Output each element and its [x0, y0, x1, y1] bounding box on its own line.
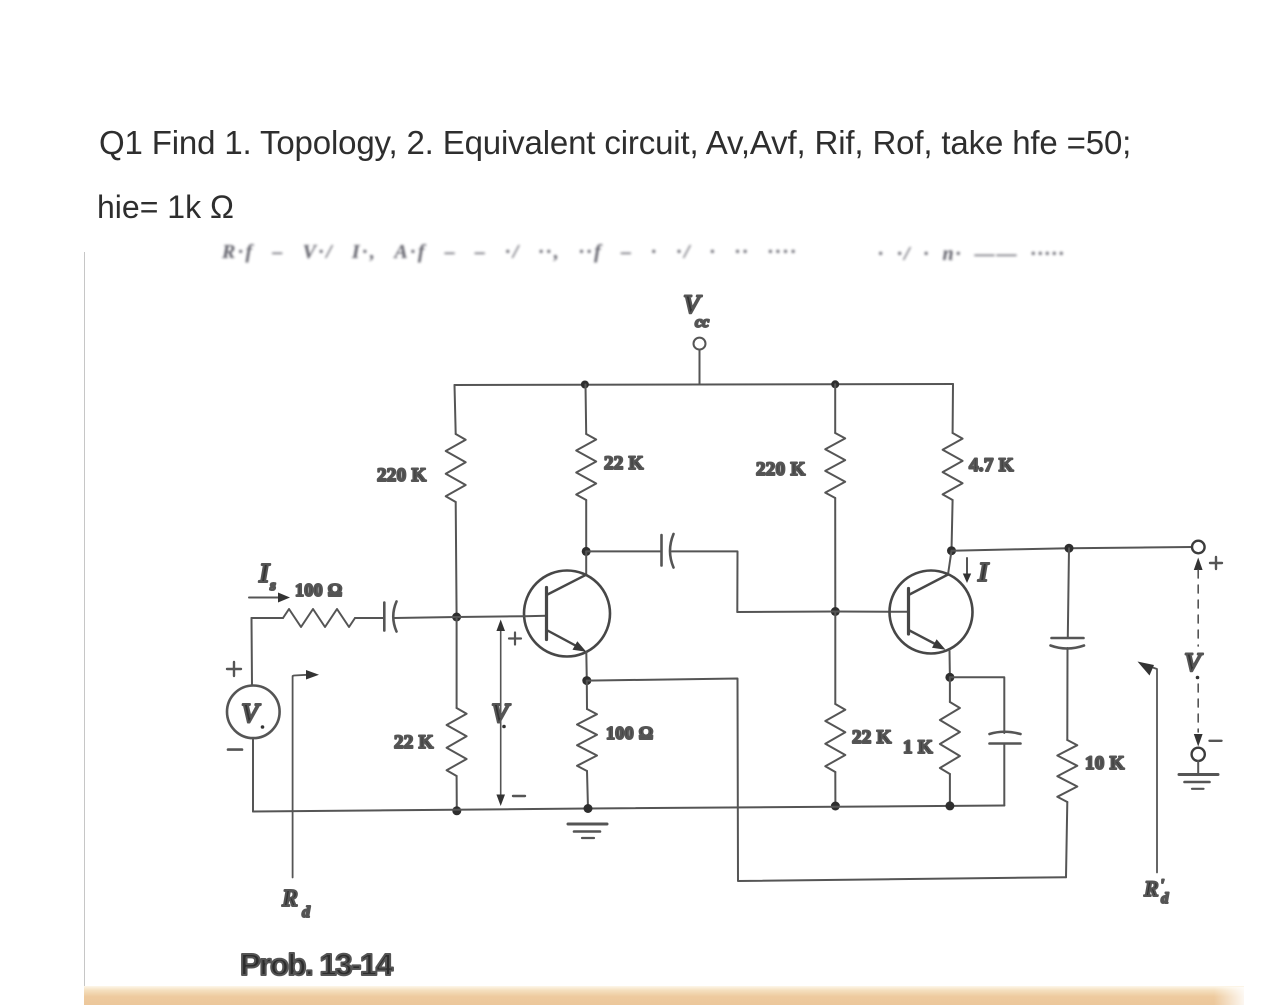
svg-text:V: V — [1184, 648, 1204, 677]
resistor R 100 ohm emitter — [577, 709, 597, 771]
wire input corner to 100ohm — [252, 617, 284, 619]
svg-text:V: V — [241, 698, 261, 728]
resistor R 220K second stage — [825, 433, 845, 498]
node rail/R220b junction — [831, 380, 839, 388]
wire Vs top to input corner — [251, 618, 254, 686]
capacitor C bypass bottom plate — [990, 742, 1021, 745]
wire Q2 emitter node to 1K — [949, 677, 951, 702]
node Q2 base junction — [831, 607, 840, 616]
wire Q2 base node to Q2 — [835, 611, 908, 613]
node Q2 collector junction — [947, 546, 956, 555]
wire Q1 emitter to emitter node — [585, 652, 588, 681]
wire 100ohm emitter to ground node — [587, 771, 588, 809]
Vi minus — [513, 795, 525, 797]
wire output cap node down — [1068, 548, 1069, 637]
capacitor C coupling left plate — [660, 535, 663, 566]
node 1K / bottom rail — [945, 801, 954, 810]
Vs plus sign — [227, 662, 241, 676]
capacitor C input right plate curved — [393, 602, 396, 632]
svg-text:d: d — [1161, 891, 1169, 907]
Q2 emitter diagonal — [910, 631, 941, 647]
svg-text:R: R — [1143, 876, 1159, 901]
wire 100ohm to input cap — [355, 617, 384, 619]
input source Vs circle — [227, 686, 280, 739]
resistor R 1K — [940, 702, 960, 774]
wire base node down to 22K bias — [456, 617, 458, 708]
output terminal plus circle — [1192, 541, 1205, 554]
wire Q2 emitter node to bypass cap corner — [950, 677, 1004, 733]
Is arrow — [249, 597, 281, 599]
ground symbol first stage — [568, 823, 607, 826]
svg-text:cc: cc — [695, 314, 709, 331]
wire collector node into Q2 — [948, 551, 952, 575]
node rail/R2 junction — [581, 381, 589, 389]
resistor R 22K collector Q1 — [576, 434, 596, 500]
transistor Q1 circle — [524, 571, 610, 657]
node ground junction — [584, 804, 593, 813]
page scan left edge — [84, 252, 85, 987]
wire rail to R1 top — [455, 385, 456, 434]
Vi measure arrow up — [500, 628, 502, 797]
wire 10K bottom to feedback run — [1066, 802, 1067, 877]
resistor R 220K first stage — [446, 434, 466, 502]
Q2 emitter arrowhead — [932, 639, 946, 650]
transistor Q2 circle — [890, 571, 973, 654]
wire output cap to 10K — [1066, 648, 1068, 740]
svg-text:22 K: 22 K — [604, 453, 644, 474]
Vo measure arrowhead up — [1194, 558, 1203, 571]
wire 22K bias bottom to ground rail — [456, 776, 458, 811]
svg-text:10 K: 10 K — [1085, 753, 1125, 774]
Vo measure arrowhead down — [1194, 734, 1203, 747]
svg-text:220 K: 220 K — [756, 459, 806, 480]
wire Q2 emitter to emitter node — [949, 651, 951, 678]
Q1 base bar — [545, 588, 548, 640]
node Q2 emitter junction — [945, 673, 954, 682]
wire Q1 collector node to coupling cap — [586, 550, 661, 552]
capacitor C output top plate — [1052, 637, 1084, 640]
resistor R 100 ohm input — [283, 609, 355, 627]
svg-text:220 K: 220 K — [377, 465, 427, 486]
svg-text:d: d — [302, 904, 311, 921]
resistor R 4.7K — [943, 433, 963, 500]
faint smudged formula line — [222, 241, 798, 264]
resistor R 10K — [1057, 740, 1077, 802]
Q1 collector diagonal — [548, 575, 587, 595]
wire rail dot to R2 top — [585, 385, 588, 435]
Q1 base wire — [457, 616, 547, 617]
wire 4.7K bottom to Q2 collector node — [952, 500, 953, 551]
Q1 emitter diagonal — [548, 631, 582, 649]
wire Q2 collector node to output line — [952, 547, 1192, 551]
feedback wire from Q1 emitter — [587, 679, 1066, 882]
capacitor C input left plate — [383, 603, 386, 631]
ground symbol output — [1179, 773, 1218, 776]
wire collector node into Q1 — [585, 551, 587, 575]
R'd indicator arrow — [1147, 666, 1157, 873]
svg-text:R: R — [281, 886, 298, 912]
svg-text:22 K: 22 K — [394, 732, 434, 753]
svg-text:s: s — [269, 578, 276, 594]
svg-text:1 K: 1 K — [903, 737, 933, 758]
svg-text:100 Ω: 100 Ω — [606, 723, 653, 743]
wire input cap to base node — [395, 617, 457, 618]
Rd indicator arrow line — [293, 675, 307, 878]
svg-text:V: V — [491, 698, 511, 728]
wire rail dot to 220K-2 top — [834, 384, 836, 433]
wire bypass cap bottom to rail corner — [1003, 745, 1005, 806]
resistor R 22K second stage — [825, 704, 845, 772]
Q2 base bar — [907, 589, 910, 635]
wire coupling cap to corner and down to Q2 base line — [672, 551, 738, 612]
capacitor C bypass top plate — [990, 732, 1021, 734]
node 22K bias / bottom rail — [452, 806, 461, 815]
bottom ground rail wire — [253, 806, 1004, 812]
Vo dashed measure line — [1197, 570, 1199, 646]
node 22K-2 / bottom rail — [831, 802, 840, 811]
output terminal minus circle — [1192, 748, 1205, 761]
capacitor C coupling right plate curved — [670, 534, 674, 568]
wire 1K bottom to rail node — [949, 774, 951, 806]
node Q1 collector junction — [582, 547, 591, 556]
wire 220K bottom to base node — [455, 502, 458, 617]
svg-text:Prob. 13-14: Prob. 13-14 — [240, 947, 394, 982]
Q2 collector diagonal — [910, 575, 949, 595]
wire corner to Q2 base node — [737, 611, 835, 614]
wire rail to R3 top — [952, 384, 954, 433]
svg-text:100 Ω: 100 Ω — [295, 580, 342, 600]
title text line 1 — [99, 124, 1131, 162]
wire Vs bottom to ground rail corner — [252, 738, 254, 811]
node Q1 emitter junction — [582, 676, 591, 685]
wire Q2 base node down to 22K-2 — [834, 612, 836, 705]
Vs minus sign — [228, 748, 242, 751]
output minus sign — [1210, 740, 1222, 742]
resistor R 22K bias — [447, 708, 467, 776]
Vi plus — [509, 633, 521, 645]
wire emitter node to 100ohm emitter resistor — [586, 681, 588, 709]
top supply rail wire — [455, 384, 954, 385]
Q1 emitter arrowhead — [573, 641, 587, 652]
node input/base junction — [452, 613, 461, 622]
I arrow annotation — [966, 558, 968, 576]
wire minus terminal to ground — [1197, 761, 1199, 774]
node output cap junction — [1065, 544, 1074, 553]
svg-text:4.7 K: 4.7 K — [969, 455, 1014, 476]
Vcc stem wire — [699, 350, 701, 385]
Vcc terminal circle — [694, 338, 706, 350]
wire 220K-2 bottom to Q2 base node — [834, 498, 836, 612]
svg-text:I: I — [977, 557, 990, 587]
output plus sign — [1210, 557, 1222, 569]
wire 22K bottom to collector node — [585, 500, 587, 551]
wire 22K-2 bottom to rail — [834, 772, 836, 806]
title text line 2 — [97, 189, 234, 226]
capacitor C output bottom plate — [1051, 646, 1085, 649]
bottom orange scan strip — [84, 986, 1244, 1005]
svg-text:22 K: 22 K — [852, 727, 892, 748]
